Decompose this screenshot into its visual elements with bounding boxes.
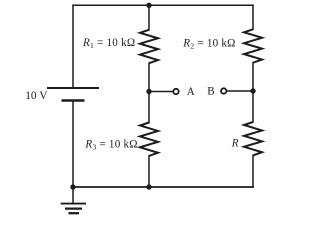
wire node A stub bbox=[149, 91, 172, 93]
junction at top of middle branch bbox=[146, 3, 151, 8]
wire bottom rail bbox=[73, 186, 253, 188]
ground bbox=[61, 204, 86, 214]
svg-text:A: A bbox=[187, 86, 195, 98]
terminal A open circle bbox=[173, 89, 178, 94]
battery 10 V short plate (-) bbox=[62, 99, 85, 101]
wire right branch bottom (R to bottom rail) bbox=[252, 155, 254, 187]
junction node B on right branch bbox=[250, 88, 255, 93]
svg-text:R2 = 10 kΩ: R2 = 10 kΩ bbox=[182, 38, 235, 51]
svg-text:R1 = 10 kΩ: R1 = 10 kΩ bbox=[82, 37, 135, 50]
wire right branch mid (R2 to node B to R) bbox=[252, 63, 254, 122]
resistor R (bottom right) bbox=[244, 122, 262, 155]
resistor R1 bbox=[140, 30, 158, 63]
resistor R3 bbox=[140, 123, 158, 156]
svg-text:10 V: 10 V bbox=[25, 90, 48, 102]
wire middle branch top (top rail to R1) bbox=[148, 5, 150, 30]
svg-text:B: B bbox=[207, 86, 214, 98]
battery 10 V long plate (+) bbox=[47, 87, 99, 89]
wire left rail lower (battery - to ground/bottom rail) bbox=[72, 101, 74, 204]
junction bottom of middle branch bbox=[146, 184, 151, 189]
wire middle branch bottom (R3 to bottom rail) bbox=[148, 156, 150, 187]
terminal B open circle bbox=[221, 88, 226, 93]
junction bottom left (ground node) bbox=[70, 184, 75, 189]
wire right branch top (top rail to R2) bbox=[252, 5, 254, 29]
svg-text:R: R bbox=[231, 137, 239, 149]
wire middle branch mid (R1 to node A to R3) bbox=[148, 63, 150, 122]
wire left rail upper (battery + to top rail) bbox=[72, 5, 74, 88]
junction node A on middle branch bbox=[146, 89, 151, 94]
wire node B stub bbox=[227, 90, 253, 92]
svg-text:R3 = 10 kΩ: R3 = 10 kΩ bbox=[84, 139, 137, 152]
resistor R2 bbox=[244, 29, 262, 62]
wire top rail bbox=[73, 4, 253, 6]
